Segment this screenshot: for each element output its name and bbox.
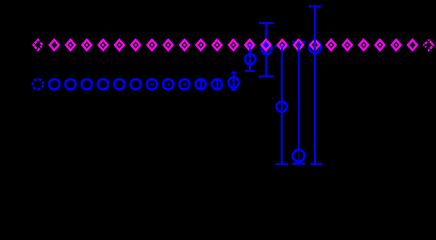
node diamond-7 (pose marker) bbox=[147, 40, 156, 50]
node circle-11 (estimate marker) bbox=[212, 79, 222, 89]
error bar 16 bottom cap bbox=[292, 163, 305, 165]
error bar 13 line bbox=[249, 46, 251, 71]
node diamond-18 (pose marker) bbox=[327, 40, 336, 50]
node circle-1 (estimate marker) bbox=[49, 79, 59, 89]
node circle-5 (estimate marker) bbox=[114, 79, 124, 89]
error bar 13 top cap bbox=[246, 45, 253, 47]
error bar 16 line bbox=[298, 42, 300, 164]
node diamond-17 (pose marker) bbox=[310, 40, 319, 50]
error bar 15 line bbox=[281, 46, 283, 164]
node circle-9 (estimate marker) bbox=[179, 79, 189, 89]
node diamond-23 (pose marker) bbox=[408, 40, 417, 50]
node diamond-6 (pose marker) bbox=[131, 40, 140, 50]
node diamond-0 (pose marker) bbox=[33, 40, 42, 50]
node circle-16 (estimate marker) bbox=[293, 150, 305, 162]
error bar tick in circle-8 bbox=[168, 83, 170, 86]
error bar 16 top cap bbox=[292, 41, 306, 43]
node diamond-9 (pose marker) bbox=[180, 40, 189, 50]
node circle-13 (estimate marker) bbox=[245, 54, 255, 64]
node diamond-21 (pose marker) bbox=[375, 40, 384, 50]
error bar in circle-10 bbox=[199, 82, 202, 88]
node diamond-24 (pose marker) bbox=[424, 40, 433, 50]
node diamond-13 (pose marker) bbox=[245, 40, 254, 50]
node circle-6 (estimate marker) bbox=[131, 79, 141, 89]
error bar tick in circle-7 bbox=[151, 84, 154, 86]
node circle-8 (estimate marker) bbox=[163, 79, 173, 89]
node diamond-11 (pose marker) bbox=[213, 40, 222, 50]
node circle-0 (estimate marker) bbox=[33, 79, 43, 89]
node diamond-20 (pose marker) bbox=[359, 40, 368, 50]
node circle-2 (estimate marker) bbox=[65, 79, 75, 89]
node circle-14 (estimate marker) bbox=[261, 44, 271, 54]
node diamond-1 (pose marker) bbox=[50, 40, 59, 50]
error bar 17 (vertical, with caps) bbox=[309, 7, 323, 165]
node circle-15 (estimate marker) bbox=[277, 102, 287, 112]
node circle-10 (estimate marker) bbox=[196, 79, 206, 89]
error bar 14 (vertical, with caps) bbox=[259, 23, 274, 76]
node diamond-14 (pose marker) bbox=[261, 40, 270, 50]
error bar tick in circle-9 bbox=[184, 83, 186, 86]
node diamond-15 (pose marker) bbox=[278, 40, 287, 50]
error bar 15 top cap bbox=[275, 45, 290, 47]
node circle-17 (estimate marker) bbox=[309, 42, 321, 54]
node diamond-2 (pose marker) bbox=[66, 40, 75, 50]
error bar through circle-12 bbox=[231, 73, 236, 90]
error bar 17 line dim segment inside diamond-17 hollow bbox=[314, 43, 316, 48]
error bar 16 line dim segment inside circle-16 bbox=[298, 151, 300, 160]
node circle-12 (estimate marker) bbox=[229, 77, 239, 87]
node circle-3 (estimate marker) bbox=[82, 79, 92, 89]
error bar 15 bottom cap bbox=[276, 163, 288, 165]
node diamond-22 (pose marker) bbox=[392, 40, 401, 50]
node diamond-5 (pose marker) bbox=[115, 40, 124, 50]
node diamond-10 (pose marker) bbox=[196, 40, 205, 50]
error bar in circle-11 bbox=[215, 80, 219, 89]
node diamond-8 (pose marker) bbox=[164, 40, 173, 50]
node diamond-12 (pose marker) bbox=[229, 40, 238, 50]
node circle-4 (estimate marker) bbox=[98, 79, 108, 89]
error bar 13 bottom cap bbox=[245, 70, 255, 72]
node diamond-3 (pose marker) bbox=[82, 40, 91, 50]
node diamond-19 (pose marker) bbox=[343, 40, 352, 50]
node circle-7 (estimate marker) bbox=[147, 79, 157, 89]
node diamond-16 (pose marker) bbox=[294, 40, 303, 50]
node diamond-4 (pose marker) bbox=[99, 40, 108, 50]
